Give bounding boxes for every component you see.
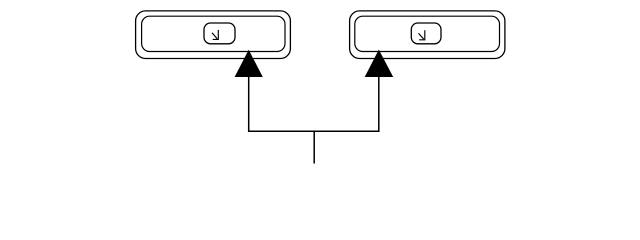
left callout arrowhead [235, 50, 263, 77]
right key button [411, 23, 441, 44]
right callout arrowhead [365, 50, 394, 77]
right key outer outline [350, 11, 505, 59]
right callout stem wire [378, 77, 380, 131]
left key outer outline [136, 11, 291, 59]
left key button [204, 23, 235, 44]
right key inner outline [355, 16, 500, 51]
left key inner outline [142, 16, 285, 51]
left callout stem wire [248, 77, 250, 131]
right key arrow glyph [419, 30, 425, 40]
horizontal connector wire [248, 130, 380, 132]
left key arrow glyph [212, 30, 218, 40]
center stem wire [313, 131, 315, 163]
